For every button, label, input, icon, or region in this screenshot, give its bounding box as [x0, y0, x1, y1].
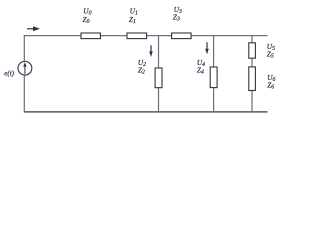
label U4 / Z4 [197, 58, 205, 76]
svg-text:e(t): e(t) [4, 70, 14, 78]
resistor Z4 (shunt) [210, 67, 217, 88]
resistor Z5 (output top) [249, 43, 256, 58]
label U2 / Z2 [138, 58, 146, 76]
current arrow into Z4 [205, 42, 209, 54]
wire bottom horizontal [24, 111, 268, 113]
wire shunt branch Z2 vertical [158, 36, 160, 112]
resistor Z1 (series) [127, 33, 147, 39]
resistor Z3 (series) [172, 33, 192, 39]
resistor Z0 (series) [81, 33, 100, 39]
resistor Z6 (output bottom) [249, 67, 256, 91]
label U0 / Z0 [83, 7, 92, 26]
current arrow top-left [27, 26, 40, 31]
wire top horizontal [24, 35, 268, 37]
wire output branch vertical [251, 36, 253, 112]
label U1 / Z1 [129, 7, 138, 26]
wire shunt branch Z4 vertical [213, 36, 215, 112]
label U6 / Z6 [267, 73, 275, 91]
label U3 / Z3 [173, 5, 182, 23]
source e(t) circle with up arrow [18, 61, 32, 75]
resistor Z2 (shunt) [155, 68, 162, 88]
wire left vertical [23, 35, 25, 112]
label U5 / Z5 [267, 42, 275, 59]
current arrow into Z2 [149, 45, 153, 57]
